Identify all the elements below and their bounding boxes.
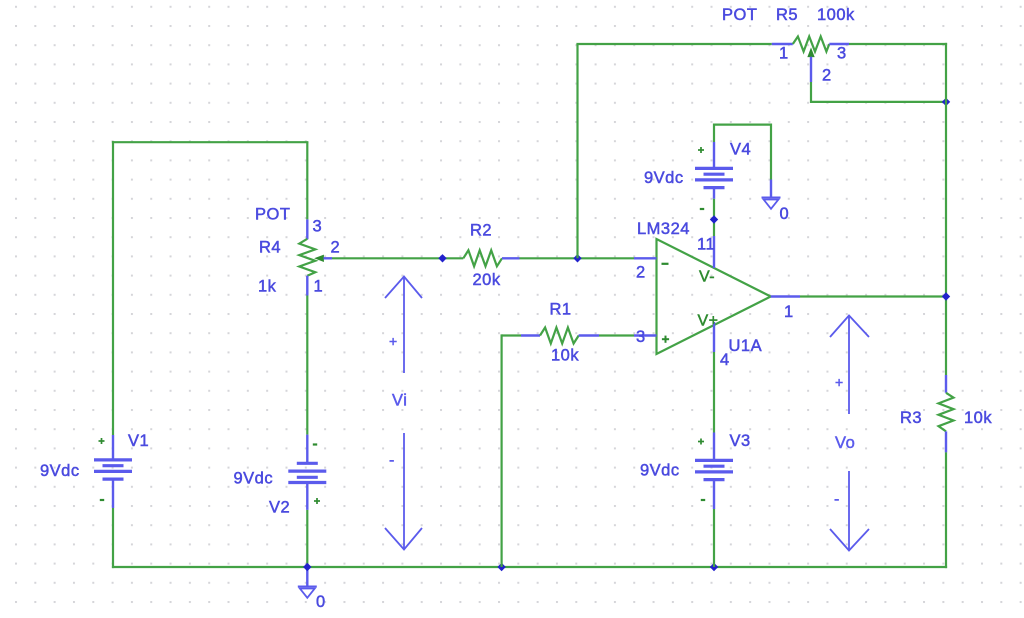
svg-text:2: 2 (636, 264, 646, 282)
op-amp pin 2 stub (634, 257, 657, 259)
svg-text:9Vdc: 9Vdc (40, 462, 80, 480)
svg-text:0: 0 (316, 593, 326, 611)
svg-text:V+: V+ (698, 313, 719, 330)
svg-text:100k: 100k (817, 6, 855, 24)
svg-text:+: + (389, 333, 398, 349)
svg-text:2: 2 (331, 239, 341, 257)
svg-text:1k: 1k (258, 278, 277, 296)
svg-text:2: 2 (822, 67, 832, 85)
resistor R2 right pin (502, 257, 520, 259)
battery V1 9Vdc (112, 435, 114, 460)
resistor R1 body (540, 328, 579, 344)
resistor R1 right pin (579, 334, 599, 336)
junction V2/ground (303, 563, 311, 571)
potentiometer R5 pin 3 (829, 43, 849, 45)
wire R3 bottom to rail (945, 452, 947, 568)
wire top of left loop (112, 141, 309, 143)
wire V1 bottom (112, 508, 114, 568)
battery V3 9Vdc (713, 433, 715, 461)
svg-text:3: 3 (313, 218, 323, 236)
svg-text:10k: 10k (551, 347, 579, 365)
op-amp output pin 1 (771, 295, 800, 297)
V2 minus marker (313, 443, 317, 445)
annotation arrow Vo down (830, 529, 869, 551)
svg-text:0: 0 (780, 205, 790, 223)
op-amp U1A LM324 triangle (657, 239, 771, 354)
ground 0 at bottom (306, 567, 308, 587)
battery V2 9Vdc (306, 435, 308, 464)
svg-text:3: 3 (837, 45, 847, 63)
wire V4 top horizontal (714, 123, 771, 125)
svg-text:1: 1 (314, 278, 324, 296)
svg-text:V1: V1 (128, 432, 149, 450)
annotation arrow Vi up (385, 277, 422, 299)
V2 plus marker (314, 500, 320, 502)
svg-text:V-: V- (699, 269, 715, 286)
svg-text:3: 3 (636, 328, 646, 346)
potentiometer R5 pin 1 (772, 43, 793, 45)
svg-text:9Vdc: 9Vdc (234, 470, 274, 488)
junction wiper/right rail (942, 98, 950, 106)
resistor R3 body (939, 393, 954, 432)
svg-text:20k: 20k (473, 271, 501, 289)
op-amp non-inverting plus marker (662, 338, 669, 340)
op-amp pin 3 stub (634, 334, 657, 336)
junction R1 return (497, 563, 505, 571)
svg-text:LM324: LM324 (637, 220, 690, 238)
wire V+ to V3 (713, 352, 715, 433)
svg-text:U1A: U1A (729, 337, 763, 355)
V1 minus marker (100, 499, 104, 501)
potentiometer R5 wiper arrow pin 2 (808, 49, 814, 57)
potentiometer R4 pin 3 (306, 219, 308, 239)
op-amp V- pin 11 (713, 236, 715, 268)
wire top feedback to R5 (576, 43, 771, 45)
V4 plus marker (698, 149, 704, 151)
potentiometer R4 pin 1 (306, 276, 308, 296)
potentiometer R4 wiper arrow pin 2 (315, 255, 323, 261)
resistor R2 body (463, 250, 502, 266)
wire R5 wiper down (810, 82, 812, 103)
resistor R3 top pin (945, 375, 947, 393)
wire down to R4 pin 3 (306, 142, 308, 219)
wire R5 wiper to right rail (811, 101, 947, 103)
svg-text:R5: R5 (776, 6, 798, 24)
ground 0 at V4 (770, 180, 772, 198)
wire V4 top left riser (713, 124, 715, 143)
wire R2 to op-amp pin 2 (520, 257, 635, 259)
svg-text:9Vdc: 9Vdc (640, 462, 680, 480)
wire bottom rail (112, 566, 947, 568)
wire R1 return riser (501, 334, 503, 567)
junction V- node (710, 215, 718, 223)
V1 plus marker (99, 440, 105, 442)
wire R4 pin 1 to V2 (306, 296, 308, 435)
svg-text:V4: V4 (730, 141, 751, 159)
svg-text:-: - (389, 452, 395, 469)
wire V4 right drop (770, 124, 772, 180)
wire R1 to op-amp pin 3 (599, 334, 634, 336)
svg-text:1: 1 (784, 303, 794, 321)
resistor R1 left pin (521, 334, 540, 336)
annotation arrow Vi down (385, 528, 422, 550)
V4 minus marker (700, 208, 704, 210)
wire right rail (945, 43, 947, 375)
svg-text:POT: POT (255, 206, 290, 224)
potentiometer R5 body (793, 37, 830, 52)
svg-text:R3: R3 (900, 409, 922, 427)
svg-text:V2: V2 (269, 499, 290, 517)
svg-text:R2: R2 (470, 222, 492, 240)
V3 plus marker (698, 441, 704, 443)
svg-text:-: - (834, 491, 840, 508)
wire R1 left (502, 334, 521, 336)
svg-text:POT: POT (722, 6, 757, 24)
wire R4 wiper to R2 (332, 257, 463, 259)
wire feedback riser (576, 44, 578, 258)
op-amp V+ pin 4 (713, 322, 715, 352)
resistor R3 bottom pin (945, 431, 947, 452)
svg-text:Vo: Vo (835, 434, 855, 452)
wire output to right rail (800, 295, 947, 297)
junction output/right rail (942, 292, 950, 300)
junction V3 bottom (710, 563, 718, 571)
op-amp inverting minus marker (662, 263, 669, 265)
svg-text:+: + (835, 374, 844, 390)
wire V3 bottom (713, 509, 715, 567)
svg-text:10k: 10k (964, 409, 992, 427)
wire left rail V1 top (112, 141, 114, 435)
svg-text:R1: R1 (550, 301, 572, 319)
svg-text:Vi: Vi (392, 392, 407, 410)
svg-text:V3: V3 (730, 432, 751, 450)
svg-text:9Vdc: 9Vdc (644, 169, 684, 187)
wire V4 minus to V- node (713, 199, 715, 236)
wire V2 bottom (306, 510, 308, 567)
annotation arrow Vo up (830, 316, 869, 338)
svg-text:R4: R4 (259, 239, 281, 257)
battery V4 9Vdc (713, 142, 715, 168)
junction node Vi (438, 254, 446, 262)
potentiometer R4 body (299, 239, 315, 276)
junction feedback node (573, 254, 581, 262)
svg-text:11: 11 (697, 236, 715, 254)
wire R5 to right rail (849, 43, 947, 45)
V3 minus marker (701, 499, 705, 501)
svg-text:1: 1 (779, 45, 789, 63)
